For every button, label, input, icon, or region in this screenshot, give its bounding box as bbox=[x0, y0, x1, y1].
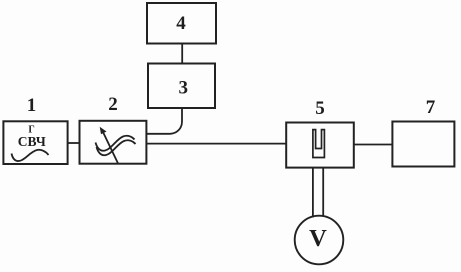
svg-text:V: V bbox=[309, 225, 327, 252]
svg-text:3: 3 bbox=[179, 78, 189, 99]
attenuator arrow shaft bbox=[103, 131, 119, 163]
block 2 (variable attenuator) box bbox=[80, 121, 147, 164]
attenuator wave upper bbox=[96, 136, 135, 151]
attenuator arrowhead bbox=[100, 127, 107, 134]
block 7 box bbox=[392, 122, 454, 167]
block 3 box bbox=[148, 64, 215, 109]
block 4 box bbox=[147, 3, 216, 44]
voltmeter circle bbox=[295, 216, 344, 265]
thermistor U symbol (double-walled U) bbox=[313, 130, 325, 158]
svg-text:1: 1 bbox=[27, 95, 37, 116]
svg-text:СВЧ: СВЧ bbox=[18, 134, 46, 149]
block 5 (thermistor head) box bbox=[286, 123, 354, 168]
svg-text:5: 5 bbox=[315, 98, 325, 119]
wire block5 to block7 bbox=[354, 144, 393, 146]
block 1 (microwave generator) box bbox=[3, 121, 67, 164]
twin wire left from block5 to voltmeter bbox=[312, 168, 314, 218]
twin wire right from block5 to voltmeter bbox=[322, 168, 324, 217]
svg-text:4: 4 bbox=[176, 13, 186, 34]
attenuator wave lower bbox=[97, 140, 136, 155]
wire block1 to block2 bbox=[68, 142, 80, 144]
wire block3 to block4 bbox=[181, 44, 183, 64]
wire tap from block2 to block3 (curved) bbox=[147, 108, 182, 134]
svg-text:2: 2 bbox=[108, 94, 118, 115]
sine wave symbol in block 1 bbox=[12, 150, 49, 161]
wire block2 to block5 (main line) bbox=[146, 143, 286, 145]
svg-text:7: 7 bbox=[426, 97, 436, 118]
